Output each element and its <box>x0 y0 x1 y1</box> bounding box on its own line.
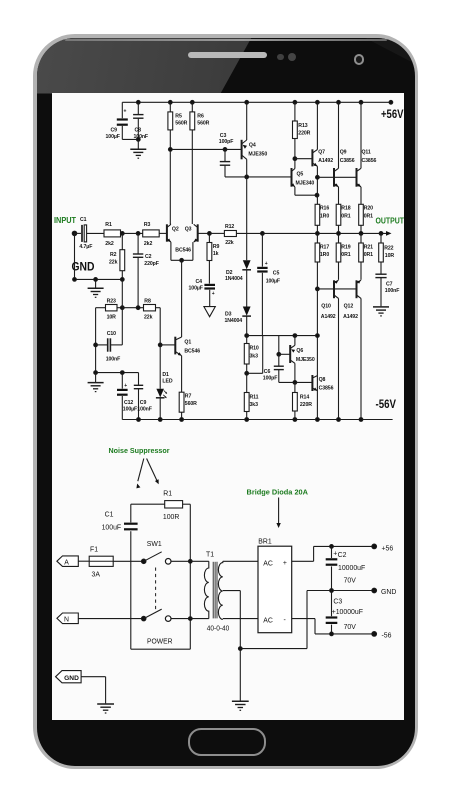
terminal A <box>57 556 78 567</box>
svg-text:MJE350: MJE350 <box>296 357 315 363</box>
wire Q11 collector to rail <box>360 102 362 168</box>
svg-text:D3: D3 <box>225 312 232 318</box>
resistor R13 <box>293 102 311 158</box>
svg-text:Q6: Q6 <box>296 348 303 354</box>
svg-text:-56: -56 <box>382 633 392 640</box>
capacitor C8 <box>133 102 148 140</box>
svg-text:Q3: Q3 <box>185 227 192 233</box>
node input terminal <box>72 231 77 236</box>
transformer T1 secondary winding <box>218 561 222 619</box>
resistor R5 <box>168 102 188 224</box>
svg-text:Q9: Q9 <box>340 150 347 156</box>
svg-text:Q7: Q7 <box>318 150 325 156</box>
svg-text:Q11: Q11 <box>362 150 371 156</box>
svg-text:R20: R20 <box>364 206 373 212</box>
svg-text:+: + <box>283 560 287 567</box>
label INPUT <box>54 215 77 225</box>
svg-text:R1: R1 <box>163 490 172 497</box>
svg-text:70V: 70V <box>344 578 357 585</box>
svg-text:-56V: -56V <box>376 397 397 411</box>
svg-text:MJE340: MJE340 <box>296 181 315 187</box>
transistor Q5 <box>291 168 314 187</box>
svg-text:100pF: 100pF <box>263 376 278 382</box>
diode D2 1N4004 <box>225 260 251 306</box>
wire GND terminal to ground <box>81 677 106 704</box>
svg-text:560R: 560R <box>197 121 209 127</box>
diode D1 LED <box>156 345 173 420</box>
node R1-R2 junction <box>120 232 124 236</box>
svg-text:C1: C1 <box>105 512 114 519</box>
svg-text:A: A <box>64 559 69 566</box>
switch SW1 upper pole <box>141 552 190 564</box>
svg-text:R3: R3 <box>144 222 151 228</box>
svg-text:R23: R23 <box>107 298 116 304</box>
svg-text:R11: R11 <box>250 395 259 401</box>
node output rail junctions <box>316 232 383 236</box>
svg-text:R16: R16 <box>320 206 329 212</box>
node +56V rail junctions <box>136 100 392 104</box>
svg-text:D1: D1 <box>162 372 169 378</box>
annotation arrows noise suppressor <box>136 459 158 489</box>
transistor Q7 <box>312 149 333 166</box>
svg-text:40-0-40: 40-0-40 <box>207 625 230 632</box>
svg-text:R1: R1 <box>105 222 112 228</box>
svg-text:Q2: Q2 <box>172 227 179 233</box>
transistor Q6 <box>279 345 315 363</box>
svg-text:0R1: 0R1 <box>364 214 373 220</box>
resistor R19 <box>336 233 351 279</box>
node +56 terminal <box>372 544 394 552</box>
fuse F1 <box>89 547 113 579</box>
svg-text:2k2: 2k2 <box>105 241 114 247</box>
wire bias aux loop <box>245 336 263 376</box>
svg-text:R17: R17 <box>320 244 329 250</box>
svg-text:A1492: A1492 <box>318 158 333 164</box>
wire input ground rail <box>73 233 125 281</box>
wire F1 to SW1 <box>113 560 141 562</box>
svg-text:100µF: 100µF <box>189 286 203 292</box>
svg-text:C12: C12 <box>124 400 133 406</box>
svg-text:220R: 220R <box>300 402 312 408</box>
wire D3 to bias rail <box>245 334 319 338</box>
svg-text:Q4: Q4 <box>249 143 256 149</box>
label SW1 <box>147 541 162 548</box>
svg-text:R13: R13 <box>298 123 307 129</box>
svg-text:10R: 10R <box>385 253 395 259</box>
svg-text:70V: 70V <box>344 624 357 631</box>
svg-text:0R1: 0R1 <box>364 252 373 258</box>
svg-text:3A: 3A <box>92 572 101 579</box>
switch SW1 lower pole <box>141 609 190 621</box>
resistor R18 <box>336 187 351 234</box>
ground below center tap <box>232 649 249 711</box>
wire Q6 collector to Q8 base rail <box>279 363 312 384</box>
wire Q2 collector to R5 <box>169 223 172 225</box>
screen <box>52 93 404 720</box>
ground below GND terminal <box>97 704 114 713</box>
svg-text:POWER: POWER <box>147 639 173 646</box>
wire T1 center tap <box>223 591 307 651</box>
transistor Q12 <box>343 280 361 320</box>
svg-text:R2: R2 <box>110 252 117 258</box>
wire diff pair tail to Q1 collector <box>181 260 183 337</box>
svg-text:C3856: C3856 <box>362 158 377 164</box>
wire Q10 collector to bottom rail <box>338 298 340 419</box>
label POWER <box>147 639 173 646</box>
svg-text:R19: R19 <box>341 244 350 250</box>
sensor dot right <box>288 53 296 61</box>
transistor Q11 <box>357 150 377 187</box>
label GND input <box>72 260 95 274</box>
svg-text:100µF: 100µF <box>106 134 120 140</box>
wire R2 column down <box>121 279 123 307</box>
svg-text:Q10: Q10 <box>321 304 331 310</box>
svg-text:R5: R5 <box>175 114 182 120</box>
transistor Q4 <box>242 140 268 160</box>
svg-text:2k2: 2k2 <box>144 241 153 247</box>
wire output rail <box>262 231 391 236</box>
svg-text:220pF: 220pF <box>144 261 159 267</box>
svg-text:100uF: 100uF <box>102 525 122 532</box>
resistor R23 <box>96 298 123 320</box>
svg-text:+56V: +56V <box>381 107 404 121</box>
svg-text:Noise Suppressor: Noise Suppressor <box>109 446 170 455</box>
transformer T1 core <box>213 562 217 619</box>
wire Q10 Q12 base rail <box>316 287 357 291</box>
svg-text:22k: 22k <box>144 315 153 321</box>
svg-text:+56: +56 <box>382 545 394 552</box>
svg-text:C2: C2 <box>338 552 347 559</box>
svg-text:R6: R6 <box>197 114 204 120</box>
transistor Q1 <box>175 337 200 356</box>
svg-text:GND: GND <box>381 589 396 596</box>
capacitor C2 psu <box>326 545 366 591</box>
label Noise Suppressor <box>109 446 170 455</box>
svg-text:R8: R8 <box>144 298 151 304</box>
svg-text:C8: C8 <box>135 128 142 134</box>
transistor Q2 <box>167 224 179 242</box>
svg-text:100nF: 100nF <box>137 407 152 413</box>
resistor R21 <box>359 233 373 279</box>
svg-text:560R: 560R <box>185 401 197 407</box>
wire Q4 emitter to +56V rail <box>246 102 248 140</box>
wire C3 to Q5 base <box>225 175 291 179</box>
transistor Q8 <box>312 375 333 392</box>
capacitor C9 <box>106 102 128 140</box>
wire Q6 emitter up to bias rail <box>294 336 296 346</box>
svg-text:GND: GND <box>64 675 79 682</box>
svg-text:C5: C5 <box>273 271 280 277</box>
wire T1 secondary bottom to BR1 <box>223 618 258 620</box>
node -56 terminal <box>372 632 392 640</box>
svg-text:100nF: 100nF <box>385 288 400 294</box>
wire Q9 collector to rail <box>338 102 340 168</box>
wire R23 left leg <box>95 308 97 373</box>
svg-text:R22: R22 <box>384 245 393 251</box>
svg-text:C6: C6 <box>264 369 271 375</box>
transformer T1 primary winding <box>204 561 208 618</box>
svg-text:INPUT: INPUT <box>54 215 77 225</box>
resistor R11 <box>244 373 258 419</box>
capacitor C3 <box>219 133 234 177</box>
wire Q3 base to R12 node <box>198 232 212 236</box>
resistor R12 <box>209 224 262 246</box>
label T1 <box>206 552 214 559</box>
ground below C7 <box>373 307 389 316</box>
capacitor C4 <box>189 279 216 307</box>
label -56V <box>376 397 397 411</box>
svg-text:AC: AC <box>263 560 273 567</box>
svg-text:BR1: BR1 <box>258 538 272 545</box>
switch SW1 link dashed <box>155 568 157 610</box>
wire Q7 collector to rail <box>316 102 318 149</box>
label +56V <box>381 107 404 121</box>
wire Q4 collector down / D2 D3 column <box>246 159 248 260</box>
capacitor C5 <box>257 233 280 335</box>
resistor R3 <box>143 222 167 247</box>
svg-text:+10000uF: +10000uF <box>332 609 363 616</box>
resistor R17 <box>315 233 329 289</box>
wire suppressor box top <box>131 503 191 505</box>
svg-text:R14: R14 <box>300 395 309 401</box>
label 40-0-40 <box>207 625 230 632</box>
diode D3 1N4004 <box>225 307 252 336</box>
svg-text:10000uF: 10000uF <box>338 565 365 572</box>
svg-text:Q12: Q12 <box>344 304 354 310</box>
sensor dot left <box>277 54 284 61</box>
svg-text:+: + <box>124 383 127 389</box>
terminal N <box>57 613 78 624</box>
svg-text:C9: C9 <box>111 128 118 134</box>
resistor R2 <box>109 233 125 279</box>
transistor Q9 <box>334 150 355 187</box>
terminal GND bottom left <box>56 671 82 683</box>
svg-text:N: N <box>64 616 69 623</box>
node R13 Q7 base <box>293 157 297 161</box>
svg-text:100pF: 100pF <box>219 139 234 145</box>
wire +56V top rail <box>122 101 392 103</box>
wire R8 to Q1 base column <box>158 308 162 347</box>
svg-text:Q8: Q8 <box>319 377 326 383</box>
wire BR1 plus output <box>292 546 375 561</box>
svg-text:C3856: C3856 <box>319 386 334 392</box>
wire Q5 collector to R13-Q7 node <box>294 159 296 169</box>
wire GND rail psu <box>307 589 374 593</box>
svg-text:C9: C9 <box>140 400 147 406</box>
wire mid ground rail <box>94 371 139 375</box>
capacitor C3 psu <box>326 591 363 634</box>
wire SW1 to T1 primary <box>190 561 209 618</box>
wire A to F1 <box>78 560 89 562</box>
svg-text:100nF: 100nF <box>106 356 121 362</box>
node bottom rail junctions <box>137 418 363 422</box>
wire R5 to Q4 base <box>168 148 241 152</box>
svg-text:MJE350: MJE350 <box>248 152 267 158</box>
svg-text:0R1: 0R1 <box>341 214 350 220</box>
svg-text:C4: C4 <box>196 279 203 285</box>
svg-text:R21: R21 <box>364 244 373 250</box>
svg-text:0R1: 0R1 <box>341 252 350 258</box>
svg-text:1N4004: 1N4004 <box>225 276 243 282</box>
svg-text:C3: C3 <box>333 599 342 606</box>
resistor R14 <box>293 382 313 419</box>
wire R13 to Q7 base <box>295 158 312 160</box>
home button <box>188 728 266 756</box>
svg-text:BC546: BC546 <box>175 247 191 253</box>
resistor R22 <box>379 233 395 273</box>
capacitor C9b 100nF <box>134 373 152 420</box>
svg-text:A1492: A1492 <box>321 314 336 320</box>
svg-text:C2: C2 <box>145 254 152 260</box>
svg-text:-: - <box>284 617 286 624</box>
svg-text:C7: C7 <box>386 281 393 287</box>
svg-text:R10: R10 <box>250 346 259 352</box>
wire N to SW1 <box>78 617 141 619</box>
resistor R20 <box>359 187 373 234</box>
svg-text:Q1: Q1 <box>184 340 191 346</box>
bridge rectifier BR1 <box>258 538 292 632</box>
ground below C8 <box>130 139 146 158</box>
svg-text:100µF: 100µF <box>266 279 280 285</box>
svg-text:LED: LED <box>162 379 172 385</box>
svg-text:C3: C3 <box>220 133 227 139</box>
wire BR1 minus output <box>292 619 375 636</box>
wire Q7 emitter / Q9 Q11 base rail <box>316 166 357 204</box>
node GND terminal <box>372 588 397 596</box>
svg-text:C10: C10 <box>107 331 116 337</box>
transistor Q10 <box>321 280 339 320</box>
label Bridge Dioda 20A <box>247 488 309 497</box>
svg-text:100R: 100R <box>163 514 179 521</box>
capacitor C2 220pF <box>133 233 159 307</box>
resistor R6 <box>190 102 210 224</box>
resistor R1 psu <box>163 490 183 521</box>
transistor Q3 <box>175 224 197 253</box>
svg-text:A1492: A1492 <box>343 314 358 320</box>
V- open triangle below C4 <box>204 307 215 317</box>
wire Q1 base <box>160 344 175 346</box>
svg-text:220R: 220R <box>298 131 310 137</box>
speaker slot <box>188 52 267 59</box>
svg-text:3k3: 3k3 <box>250 354 259 360</box>
svg-text:1k: 1k <box>213 251 219 257</box>
svg-text:SW1: SW1 <box>147 541 162 548</box>
svg-text:R12: R12 <box>225 224 234 230</box>
svg-text:AC: AC <box>263 617 273 624</box>
svg-text:Bridge Dioda 20A: Bridge Dioda 20A <box>247 488 309 497</box>
svg-text:100µF: 100µF <box>123 407 137 413</box>
svg-text:22k: 22k <box>109 260 118 266</box>
svg-text:+: + <box>265 261 268 267</box>
svg-text:1R0: 1R0 <box>320 252 329 258</box>
svg-text:560R: 560R <box>175 121 187 127</box>
svg-text:10R: 10R <box>107 315 117 321</box>
svg-text:+: + <box>212 291 215 297</box>
capacitor C6 <box>263 336 284 383</box>
resistor R10 <box>244 336 259 374</box>
wire Q12 collector to bottom rail <box>360 298 362 419</box>
capacitor C12 <box>117 373 137 420</box>
wire R1 to C2 to R3 <box>122 232 142 236</box>
resistor R8 <box>144 298 161 320</box>
wire C9-C8 bottom node <box>122 138 140 142</box>
wire Q2 Q3 emitters join <box>171 242 193 262</box>
svg-text:R18: R18 <box>341 206 350 212</box>
svg-text:+: + <box>124 109 127 115</box>
label OUTPUT <box>376 215 405 225</box>
svg-text:D2: D2 <box>226 270 233 276</box>
capacitor C7 <box>375 274 399 306</box>
capacitor C1 psu <box>102 504 138 649</box>
svg-text:22k: 22k <box>225 240 234 246</box>
resistor R16 <box>315 204 329 233</box>
svg-text:C1: C1 <box>80 217 87 223</box>
capacitor C10 <box>94 308 123 363</box>
svg-text:R7: R7 <box>185 394 192 400</box>
ground below mid rail <box>88 373 104 392</box>
annotation arrow bridge <box>276 498 280 529</box>
svg-text:Q5: Q5 <box>297 172 304 178</box>
wire R17 column to bias node <box>316 289 318 420</box>
svg-text:1R0: 1R0 <box>320 214 329 220</box>
svg-text:C3856: C3856 <box>340 158 355 164</box>
front camera <box>354 54 365 65</box>
svg-text:OUTPUT: OUTPUT <box>376 215 405 225</box>
svg-text:T1: T1 <box>206 552 214 559</box>
wire Q5 emitter to Q9 column <box>295 187 319 197</box>
phone body <box>33 34 418 769</box>
wire suppressor box right and bottom <box>131 504 192 649</box>
svg-text:R9: R9 <box>213 244 220 250</box>
wire T1 secondary top to BR1 <box>223 560 258 562</box>
node output rail start <box>261 232 265 236</box>
capacitor C1 4.7uF <box>75 217 105 250</box>
resistor R9 <box>207 233 220 283</box>
svg-text:3k3: 3k3 <box>250 402 259 408</box>
node R23 R8 junction <box>120 306 124 310</box>
svg-text:BC546: BC546 <box>184 348 200 354</box>
svg-text:1N4004: 1N4004 <box>225 318 243 324</box>
ground below input rail <box>88 279 104 297</box>
resistor R1 <box>104 222 122 247</box>
wire R23 node to R8 <box>122 306 143 310</box>
wire -56V bottom rail <box>122 419 392 421</box>
svg-text:4.7µF: 4.7µF <box>79 244 92 250</box>
svg-text:F1: F1 <box>90 547 98 554</box>
resistor R7 <box>179 356 197 420</box>
